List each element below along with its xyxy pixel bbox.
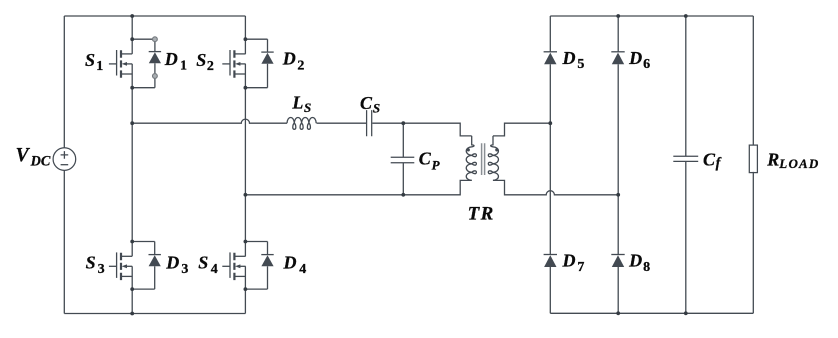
wire bottom-right rail <box>550 312 753 314</box>
label LS <box>291 93 311 116</box>
diode D4 (antiparallel) <box>261 242 273 290</box>
wire S1-S3 leg bottom (S3 source to bottom rail) <box>131 266 133 313</box>
svg-text:S: S <box>86 253 96 273</box>
svg-text:D: D <box>628 48 642 68</box>
wire S4 source junction to D4 <box>245 288 267 290</box>
diode D7 <box>544 255 557 268</box>
node S2 source / D2 <box>244 86 248 90</box>
svg-text:8: 8 <box>643 260 650 275</box>
wire left rail upper (Vdc to top rail) <box>63 16 65 148</box>
wire S2-S4 leg middle (S2 source through node B to S4 drain) <box>244 64 246 256</box>
label S2 <box>196 50 214 74</box>
svg-text:S: S <box>85 50 95 70</box>
svg-text:R: R <box>766 150 779 170</box>
svg-text:P: P <box>432 158 441 173</box>
svg-text:D: D <box>628 251 642 271</box>
node A bridge mid left <box>130 121 134 125</box>
label Cf <box>703 150 722 172</box>
wire rectifier leg 1 upper (rail to D5) <box>549 16 551 52</box>
node TR secondary polarity dot <box>495 148 498 151</box>
wire bottom-left rail <box>64 313 245 315</box>
svg-text:V: V <box>16 145 31 166</box>
wire rectifier leg 2 upper (rail to D6) <box>617 16 619 52</box>
label CP <box>419 149 441 173</box>
svg-text:C: C <box>419 149 432 169</box>
wire rectifier leg 1 lower (D7 to bottom rail) <box>549 267 551 313</box>
wire S1-S3 leg top (top rail to S1 drain) <box>131 16 133 54</box>
label D6 <box>628 48 650 72</box>
node S3 drain / D3 <box>130 240 134 244</box>
wire top-left rail <box>64 15 245 17</box>
svg-text:D: D <box>282 48 296 68</box>
transformer TR secondary winding <box>488 136 498 181</box>
svg-text:TR: TR <box>468 204 495 225</box>
transformer TR primary winding <box>466 136 476 181</box>
label D7 <box>562 251 585 275</box>
wire S1-S3 leg middle (S1 source through mid node to S3 drain) <box>131 64 133 256</box>
voltage source VDC circle <box>53 148 76 171</box>
wire transformer secondary top to rectifier leg 1 <box>493 123 550 136</box>
wire S3 source junction to D3 <box>132 288 155 290</box>
svg-text:4: 4 <box>299 262 306 277</box>
voltage source plus sign <box>61 151 69 159</box>
label D1 <box>164 49 187 74</box>
transistor S2 (NMOS) <box>222 50 245 78</box>
svg-text:D: D <box>165 252 179 272</box>
label S3 <box>86 253 105 277</box>
node S1 drain / D1 <box>130 37 134 41</box>
svg-text:3: 3 <box>181 262 188 277</box>
node D1 bottom port circle <box>153 74 158 79</box>
node bottom rail / S3 leg <box>130 312 134 316</box>
diode D6 <box>611 52 624 65</box>
label D2 <box>282 48 305 73</box>
transformer TR core lines <box>482 143 485 175</box>
svg-text:S: S <box>196 50 206 70</box>
svg-text:D: D <box>283 252 297 272</box>
label D8 <box>628 251 650 275</box>
wire S1 drain junction to D1 <box>132 38 155 40</box>
node S4 source / D4 <box>244 287 248 291</box>
wire S1 source junction to D1 <box>132 87 155 89</box>
wire node C to transformer primary top <box>403 123 471 136</box>
svg-text:S: S <box>198 253 208 273</box>
capacitor CP plates <box>391 157 415 162</box>
wire CP bottom to node D <box>402 163 404 195</box>
label S1 <box>85 50 103 74</box>
wire S2 source junction to D2 <box>245 87 267 89</box>
svg-text:2: 2 <box>297 59 304 74</box>
svg-text:D: D <box>562 48 576 68</box>
diode D2 (antiparallel) <box>261 39 273 87</box>
voltage source minus sign <box>61 164 69 166</box>
wire S2 drain junction to D2 <box>245 38 267 40</box>
svg-text:1: 1 <box>180 59 187 74</box>
wire node B (S2 midpoint) to transformer primary bottom <box>245 180 471 194</box>
svg-text:LOAD: LOAD <box>778 156 819 171</box>
svg-text:6: 6 <box>643 57 650 72</box>
transistor S4 (NMOS) <box>222 252 245 280</box>
label S4 <box>198 253 218 277</box>
resistor RLOAD body <box>749 145 757 173</box>
label CS <box>360 93 380 116</box>
diode D5 <box>544 52 557 65</box>
svg-text:7: 7 <box>577 260 584 275</box>
diode D8 <box>611 255 624 268</box>
node S4 drain / D4 <box>244 240 248 244</box>
wire S2-S4 leg bottom (S4 source to bottom rail) <box>244 266 246 313</box>
wire left rail lower (Vdc to bottom rail) <box>63 170 65 313</box>
wire Cf leg lower <box>685 162 687 314</box>
node top rail / S1 leg <box>130 14 134 18</box>
wire CS to node C <box>372 122 403 124</box>
transistor S1 (NMOS) <box>109 50 132 78</box>
diode D3 (antiparallel) <box>149 242 161 290</box>
wire Rload leg lower <box>752 172 754 313</box>
capacitor Cf plates <box>673 156 698 161</box>
wire Cf leg upper <box>685 16 687 156</box>
svg-text:DC: DC <box>30 153 51 169</box>
node bottom rail / leg 2 <box>616 311 620 315</box>
svg-text:C: C <box>360 93 373 113</box>
wire rectifier leg 2 lower (D8 to bottom rail) <box>617 267 619 313</box>
wire node C down to CP <box>402 123 404 157</box>
node S3 source / D3 <box>130 287 134 291</box>
node S1 source / D1 <box>130 86 134 90</box>
diode D1 (antiparallel, with port circles) <box>149 42 161 88</box>
svg-text:S: S <box>304 100 311 115</box>
node secondary top / leg 1 <box>548 121 552 125</box>
svg-text:S: S <box>373 101 380 116</box>
node bottom rail / Cf leg <box>684 311 688 315</box>
label D4 <box>283 252 307 277</box>
svg-text:3: 3 <box>98 262 105 277</box>
wire node A (S1 midpoint) to inductor with hop over S2 leg <box>132 119 287 123</box>
svg-text:f: f <box>716 156 722 172</box>
svg-text:L: L <box>291 93 303 113</box>
node D (CP bottom) <box>401 193 405 197</box>
node B bridge mid right <box>244 193 248 197</box>
svg-text:1: 1 <box>96 59 103 74</box>
svg-text:4: 4 <box>211 262 218 277</box>
wire rectifier leg 2 middle (D6 to D8) <box>617 64 619 254</box>
capacitor CS plates <box>367 110 372 136</box>
label RLOAD <box>766 150 819 172</box>
node top rail / Cf leg <box>684 14 688 18</box>
svg-text:D: D <box>562 251 576 271</box>
wire top-right rail <box>550 15 753 17</box>
wire transformer secondary bottom to rectifier leg 2 with hop over leg 1 <box>493 180 618 194</box>
svg-text:C: C <box>703 150 716 170</box>
node secondary bottom / leg 2 <box>616 193 620 197</box>
wire S2-S4 leg top (top rail to S2 drain) <box>244 16 246 54</box>
wire Rload leg upper <box>752 16 754 145</box>
node top rail / leg 2 <box>616 14 620 18</box>
transistor S3 (NMOS) <box>109 252 132 280</box>
node TR primary polarity dot <box>467 148 470 151</box>
node D1 top port circle <box>153 37 158 42</box>
svg-text:D: D <box>164 49 178 69</box>
node S2 drain / D2 <box>244 37 248 41</box>
node C (CS to CP) <box>401 121 405 125</box>
label VDC <box>16 145 51 170</box>
label D5 <box>562 48 585 72</box>
svg-text:2: 2 <box>207 59 214 74</box>
inductor LS <box>287 118 316 130</box>
wire S3 drain junction to D3 <box>132 241 155 243</box>
wire inductor to capacitor CS <box>317 122 367 124</box>
wire rectifier leg 1 middle (D5 to D7) <box>549 64 551 254</box>
label D3 <box>165 252 188 277</box>
wire S4 drain junction to D4 <box>245 241 267 243</box>
svg-text:5: 5 <box>577 57 584 72</box>
